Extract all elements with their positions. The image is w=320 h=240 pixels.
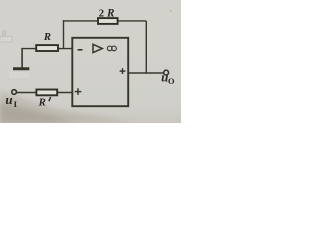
bottom-left page shadow <box>0 91 135 123</box>
svg-text:O: O <box>168 77 175 86</box>
resistor R' <box>36 90 57 96</box>
input terminal u_I <box>12 90 17 95</box>
resistor 2R <box>98 18 118 24</box>
wire: inverting input horizontal <box>21 48 72 50</box>
wire: feedback right vertical <box>145 21 147 74</box>
svg-text:R: R <box>43 32 51 43</box>
svg-text:I: I <box>14 99 18 109</box>
ground <box>13 67 29 70</box>
svg-text:R: R <box>38 97 46 109</box>
op-amp output plus polarity <box>120 68 126 74</box>
op-amp U1 box <box>72 38 128 106</box>
paper background <box>0 0 181 123</box>
wire: output horizontal <box>128 72 164 74</box>
op-amp infinity symbol <box>107 46 116 51</box>
op-amp triangle symbol <box>93 44 102 52</box>
svg-text:R: R <box>106 8 115 20</box>
wire: ground drop vertical <box>21 48 23 68</box>
wire: feedback tap vertical <box>63 20 65 48</box>
wire: feedback top horizontal <box>63 20 147 22</box>
svg-text:2: 2 <box>99 9 104 20</box>
svg-text:u: u <box>5 92 12 107</box>
op-amp minus input label <box>78 49 83 51</box>
svg-text:R: R <box>1 28 8 38</box>
faint show-through ghost <box>0 37 12 43</box>
wire: input terminal to noninverting input <box>16 92 72 94</box>
output terminal u_O <box>164 70 169 75</box>
paper speck <box>169 10 172 13</box>
resistor R <box>36 45 58 51</box>
op-amp plus input label <box>75 88 82 95</box>
